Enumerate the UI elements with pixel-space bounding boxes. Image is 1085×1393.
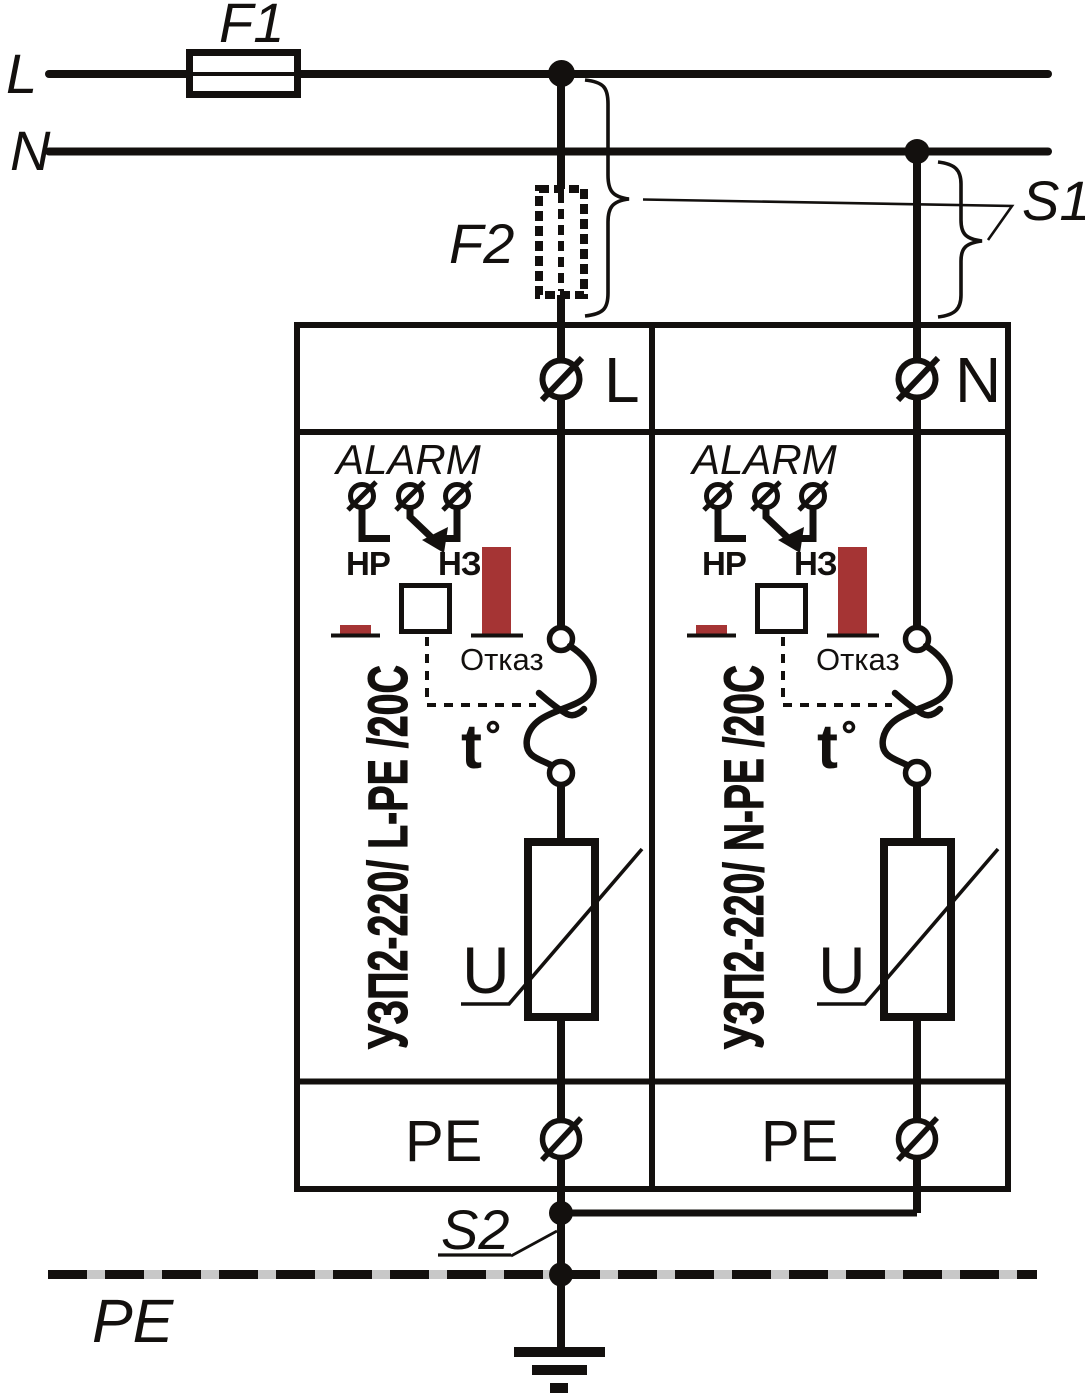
module 1 wire switch to varistor [557,785,565,842]
module 1 dashed linkage [427,637,536,705]
module 2 tall bar baseline [827,634,879,638]
label S2 underlined [438,1198,511,1261]
fuse F1 [190,53,298,95]
module 1 tall bar baseline [471,634,523,638]
SPD bottom PE row divider [294,1079,1011,1085]
svg-text:PE: PE [761,1109,838,1174]
module 2 dashed linkage [783,637,892,705]
ground symbol [514,1352,605,1388]
module 1 alarm common contact with arrow [410,508,448,553]
module 1 varistor diagonal [461,849,642,1004]
svg-text:L: L [604,344,640,416]
wire PE bus to ground [557,1274,565,1350]
module 2 thermal switch top contact [906,628,929,651]
PE bus dashed line [48,1270,1037,1279]
module 2 alarm contact wire NC [786,508,813,539]
fuse F2 internal dashed wire [558,193,564,291]
svg-text:УЗП2-220/ L-PE /20C: УЗП2-220/ L-PE /20C [356,665,419,1049]
svg-text:НЗ: НЗ [794,545,837,582]
module 1 indicator small red bar [340,625,371,634]
module 1 alarm terminal 3 [443,482,471,510]
module 1 alarm terminal 2 [396,482,424,510]
wire PE bus connector horizontal [561,1210,917,1217]
module 2 alarm terminal 1 [704,482,732,510]
module 1 linkage hook [539,693,584,715]
module 2 PE terminal circle [898,1118,937,1160]
module 2 alarm contact wire NO [718,508,746,539]
brace S1 left [585,80,629,316]
svg-text:НЗ: НЗ [438,545,481,582]
module 1 alarm contact wire NO [362,508,390,539]
module 1 alarm terminal 1 [348,482,376,510]
junction dot on PE bus [549,1263,573,1287]
module 1 indicator tall red bar [482,547,511,634]
svg-text:F1: F1 [219,0,284,54]
module 2 indicator small red bar [696,625,727,634]
module 2 small bar baseline [687,634,736,638]
module 1 indicator white square [402,586,450,632]
svg-text:Отказ: Отказ [816,642,900,677]
PE bus gray underlay [48,1270,1037,1279]
svg-text:ALARM: ALARM [689,436,837,483]
wire from L junction down to F2 [557,74,565,189]
module 1 terminal circle L [542,358,582,400]
leader line S1 [643,200,1012,241]
svg-text:F2: F2 [449,212,514,275]
module 1 alarm contact wire NC [430,508,457,539]
svg-text:НР: НР [702,545,746,582]
module 2 terminal circle N [898,358,938,400]
svg-text:N: N [955,344,1001,416]
wire from N junction down to module 2 terminal N [913,152,921,639]
module 2 varistor body [884,842,951,1017]
module 2 thermal switch bottom contact [906,762,929,785]
fuse F1 internal wire [193,72,294,76]
SPD unit outer box [297,325,1008,1189]
wire from F2 to module 1 terminal L [557,295,565,639]
svg-text:PE: PE [92,1287,175,1355]
SPD middle divider between modules [649,325,655,1189]
svg-text:N: N [10,119,51,182]
module 1 label t deg [461,712,498,782]
SPD terminal row divider [294,429,1011,435]
svg-text:Отказ: Отказ [460,642,544,677]
module 1 thermal switch blade [527,646,594,765]
wire L line [49,70,1048,78]
module 2 alarm common contact with arrow [766,508,804,553]
svg-text:УЗП2-220/ N-PE /20C: УЗП2-220/ N-PE /20C [712,665,775,1049]
module 2 linkage hook [895,693,940,715]
junction dot on N (node to module 2) [905,139,930,164]
fuse F2 dashed body [539,189,584,295]
leader line S2 [511,1231,557,1256]
module 2 indicator tall red bar [838,547,867,634]
svg-text:PE: PE [405,1109,482,1174]
wire N line [49,148,1048,156]
svg-text:S1: S1 [1022,169,1085,232]
svg-text:ALARM: ALARM [333,436,481,483]
module 1 wire varistor to PE terminal [557,1017,565,1213]
module 1 varistor body [528,842,595,1017]
module 2 varistor diagonal [817,849,998,1004]
svg-text:U: U [818,933,866,1007]
svg-text:t: t [461,712,482,782]
svg-text:НР: НР [346,545,390,582]
module 2 alarm terminal 2 [752,482,780,510]
module 1 PE terminal circle [542,1118,581,1160]
module 2 wire varistor to PE terminal [913,1017,921,1213]
wire S2 node to PE bus [557,1213,565,1274]
svg-text:L: L [6,42,37,105]
junction dot on L (node to F2) [548,60,575,87]
svg-text:t: t [817,712,838,782]
svg-text:U: U [462,933,510,1007]
module 2 wire switch to varistor [913,785,921,842]
module 2 indicator white square [758,586,806,632]
module 2 label t deg [817,712,854,782]
junction dot S2 node [549,1201,573,1225]
brace S1 right [938,162,982,317]
svg-text:S2: S2 [441,1198,510,1261]
module 2 alarm terminal 3 [799,482,827,510]
module 1 small bar baseline [331,634,380,638]
module 2 thermal switch blade [883,646,950,765]
module 1 thermal switch bottom contact [550,762,573,785]
module 1 thermal switch top contact [550,628,573,651]
